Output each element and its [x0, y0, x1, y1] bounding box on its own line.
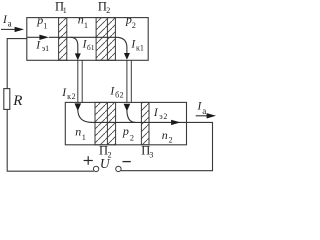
svg-text:а: а: [202, 106, 206, 116]
svg-text:I: I: [153, 107, 159, 119]
svg-text:2: 2: [169, 135, 173, 144]
label +: [84, 156, 93, 165]
junction П2 hatched strip (lower transistor): [95, 102, 116, 144]
label П2 (bottom): [99, 144, 112, 160]
wire: left lead down to source: [7, 109, 94, 171]
region label n2 (lower): [162, 128, 173, 145]
svg-text:2: 2: [130, 133, 134, 142]
svg-text:а: а: [8, 19, 12, 29]
svg-text:R: R: [12, 93, 22, 109]
wire: main current line across n1 through П2: [49, 36, 116, 38]
junction П1 hatched strip: [59, 18, 67, 61]
svg-text:э2: э2: [159, 112, 168, 121]
junction П2 hatched strip (upper transistor): [96, 18, 115, 61]
svg-text:э1: э1: [42, 44, 49, 53]
wire: main current line across lower box: [91, 121, 187, 123]
wire: cathode loop right: [121, 122, 213, 170]
current Iк2 arrow into lower box: [61, 87, 92, 122]
resistor R: [4, 89, 23, 110]
svg-text:к1: к1: [136, 44, 144, 53]
svg-text:1: 1: [43, 21, 47, 30]
svg-text:n: n: [162, 128, 168, 142]
region label n1 (lower): [75, 125, 86, 142]
svg-text:n: n: [78, 13, 84, 27]
wire: double link right (p2 to lower collector): [127, 60, 131, 102]
wire: double link left (n1 to lower base): [78, 60, 82, 102]
svg-text:p: p: [122, 124, 129, 138]
label П1: [55, 0, 67, 15]
lower transistor body n1-p2-n2: [65, 102, 186, 144]
current Ia output arrow: [196, 101, 216, 119]
svg-text:к2: к2: [67, 92, 76, 101]
svg-text:2: 2: [106, 6, 110, 15]
region label p2 (upper): [125, 13, 136, 31]
svg-text:1: 1: [82, 133, 86, 142]
terminal - circle: [116, 166, 121, 171]
region label n1 (upper): [78, 13, 88, 30]
current Ia input arrow: [1, 14, 24, 32]
svg-text:p: p: [36, 13, 43, 27]
label П2 (top): [98, 0, 110, 15]
label minus: [123, 161, 131, 163]
current Iэ2 arrow: [153, 107, 181, 125]
terminal + circle: [93, 166, 98, 171]
current Iб1 branch curve and arrow: [71, 37, 95, 60]
svg-text:б2: б2: [115, 90, 124, 99]
svg-text:U: U: [100, 156, 111, 171]
svg-text:2: 2: [132, 21, 136, 30]
upper transistor body p1-n1-p2: [27, 18, 148, 61]
svg-text:n: n: [75, 125, 81, 139]
svg-text:1: 1: [84, 21, 88, 30]
label П3 (bottom): [141, 144, 153, 160]
region label p1: [36, 13, 47, 30]
current Iэ1 arrow: [27, 35, 49, 54]
current Iк1 curve and arrow: [116, 37, 144, 60]
current Iб2 arrow into lower box: [109, 86, 135, 123]
region label p2 (lower): [122, 124, 134, 143]
svg-text:б1: б1: [87, 43, 95, 52]
junction П3 hatched strip: [141, 102, 149, 144]
wire: anode loop left: [7, 39, 27, 89]
svg-text:I: I: [35, 40, 41, 52]
svg-text:3: 3: [149, 151, 153, 160]
svg-text:1: 1: [63, 6, 67, 15]
